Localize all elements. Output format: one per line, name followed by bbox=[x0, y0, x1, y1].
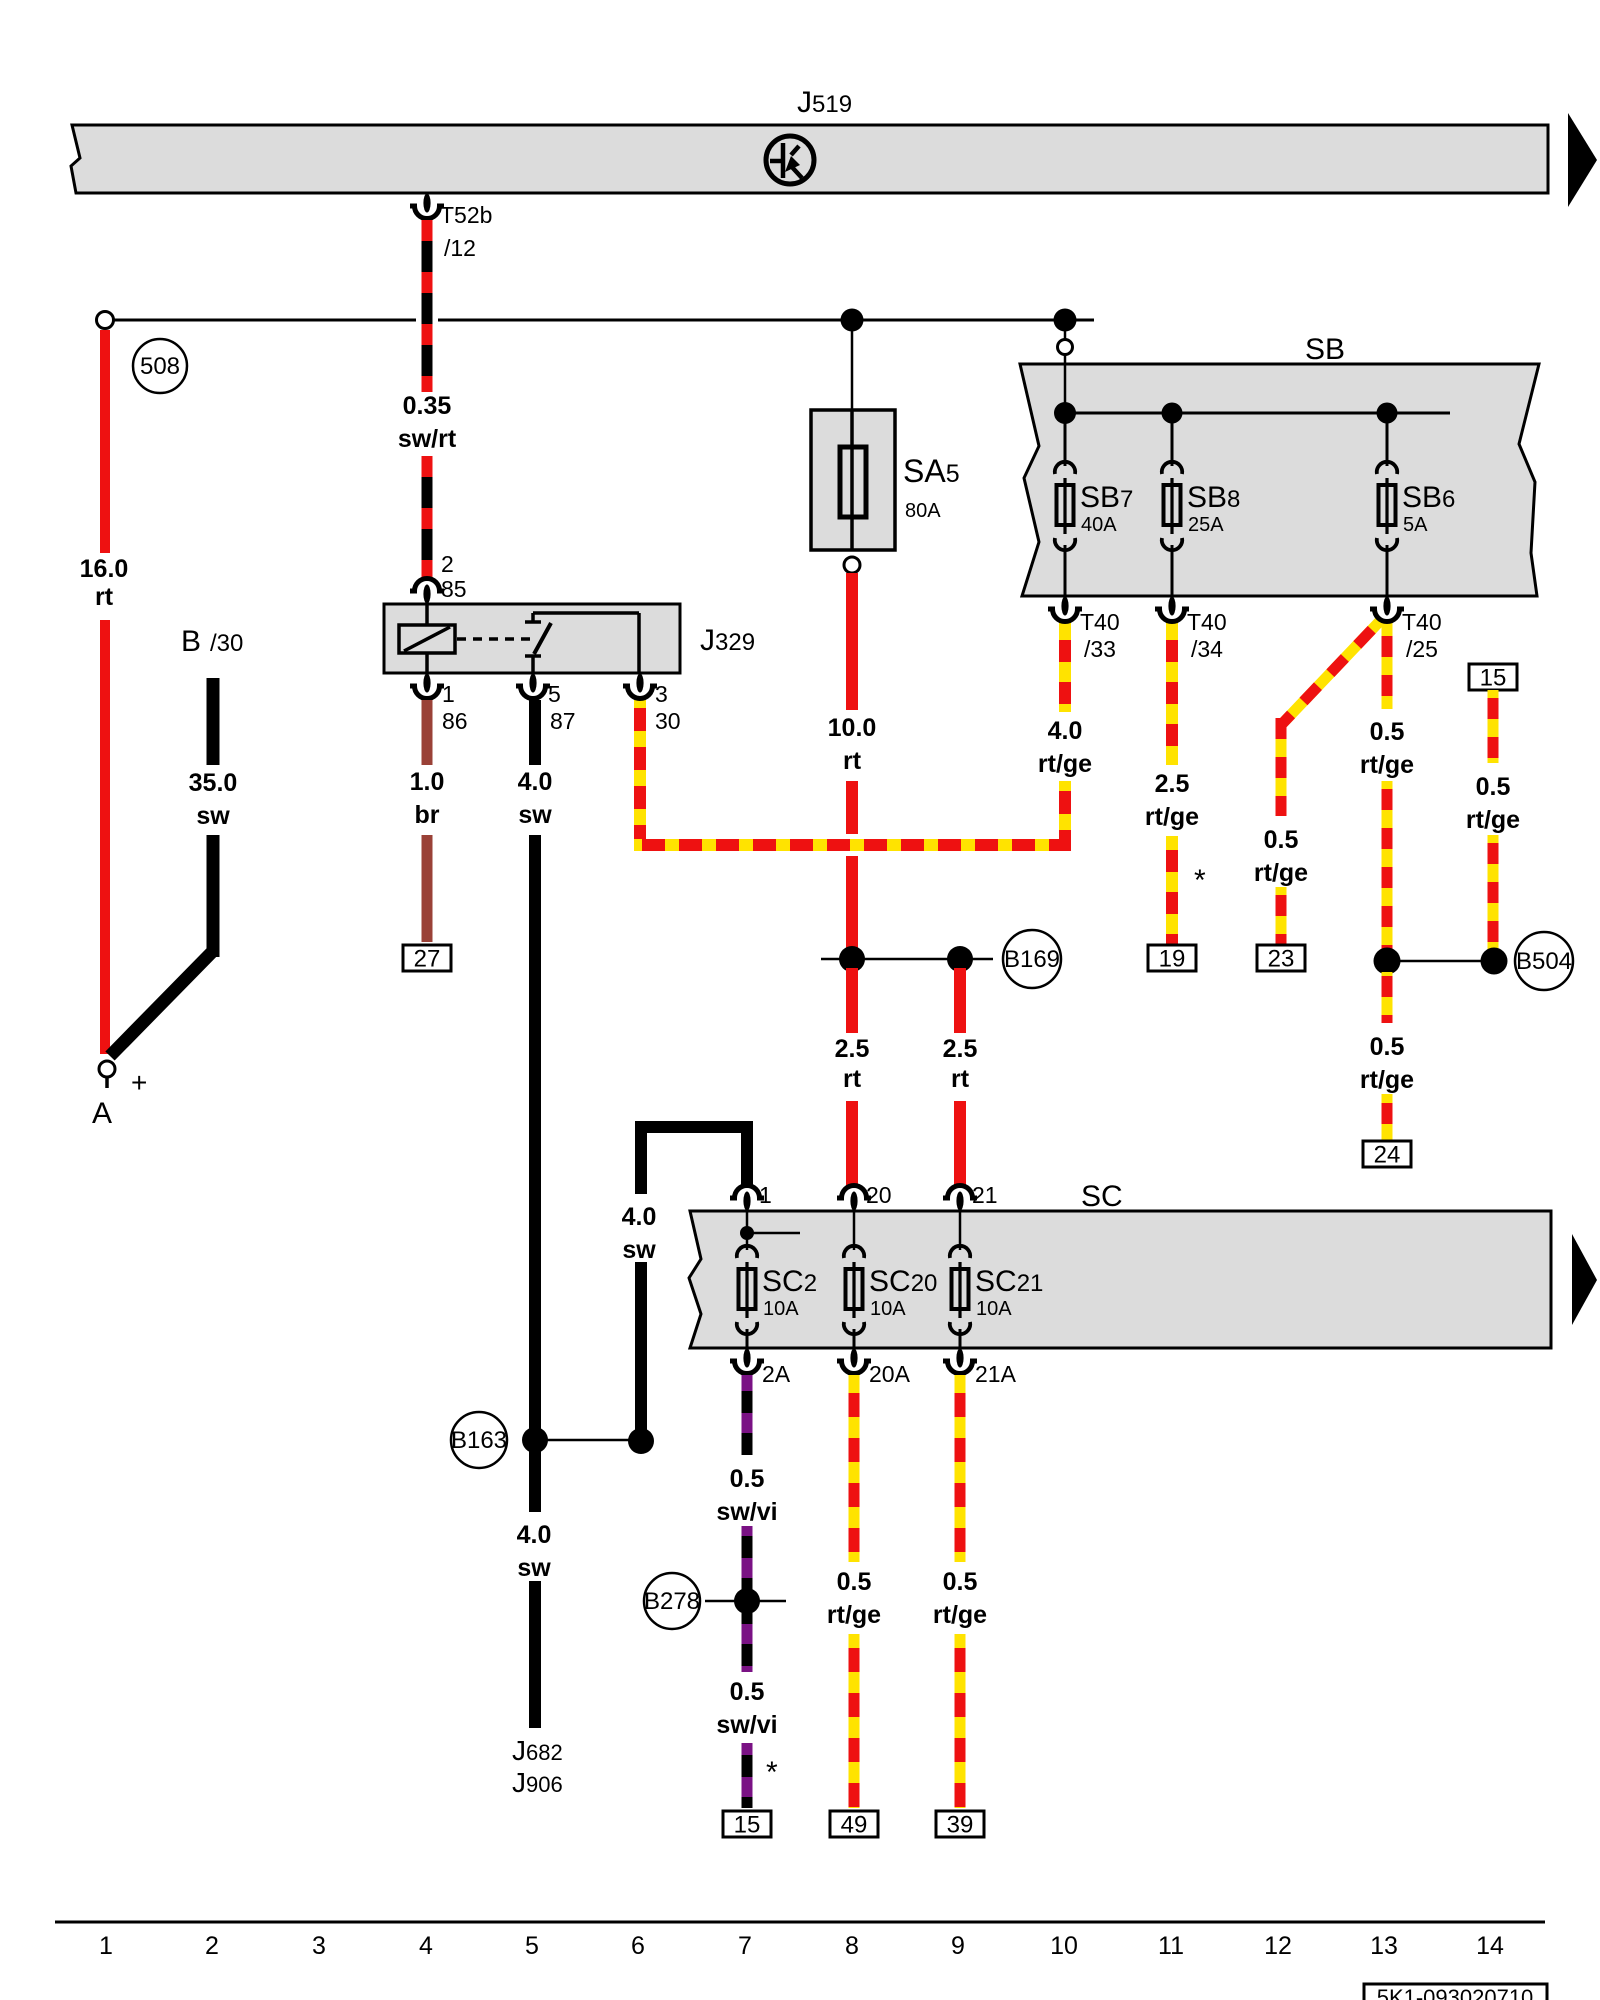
svg-text:rt: rt bbox=[843, 747, 862, 775]
junction dot B504 left bbox=[1374, 948, 1401, 975]
svg-text:4: 4 bbox=[419, 1932, 433, 1960]
connection box 23 bbox=[1257, 945, 1305, 973]
wire 0.5 sw/vi bottom segment bbox=[742, 1743, 753, 1808]
svg-text:SC2: SC2 bbox=[762, 1265, 817, 1298]
svg-text:B278: B278 bbox=[644, 1588, 700, 1615]
svg-text:9: 9 bbox=[951, 1932, 965, 1960]
fuse SA5 80A bbox=[811, 410, 960, 550]
wire 0.5 rt/ge below B504 bbox=[1382, 972, 1393, 1023]
node B169 connection line bbox=[821, 958, 993, 961]
wire 0.5 sw/vi to B278 bbox=[742, 1526, 753, 1594]
svg-text:1: 1 bbox=[759, 1182, 772, 1208]
SA5 output terminal ring bbox=[844, 557, 860, 573]
SC pin 21A connector bbox=[943, 1349, 1017, 1388]
svg-text:1: 1 bbox=[442, 681, 455, 707]
wire 0.5 rt/ge below SC20 upper segment bbox=[849, 1375, 860, 1562]
relay pin 3/30 connector bbox=[623, 674, 681, 735]
wire 4.0 sw segment below pin 87 bbox=[529, 700, 541, 765]
wire 0.5 rt/ge diagonal from T40/25 bbox=[1282, 621, 1380, 724]
battery positive terminal A bbox=[92, 1061, 147, 1130]
wire 35.0 sw lower segment bbox=[207, 835, 220, 957]
svg-text:/33: /33 bbox=[1084, 636, 1116, 662]
svg-text:27: 27 bbox=[414, 946, 441, 973]
svg-text:rt: rt bbox=[843, 1065, 862, 1093]
svg-text:13: 13 bbox=[1370, 1932, 1398, 1960]
ground reference box 27 bbox=[403, 945, 451, 973]
relay J329 box bbox=[384, 604, 755, 673]
svg-text:2.5: 2.5 bbox=[835, 1035, 870, 1063]
svg-text:rt/ge: rt/ge bbox=[1254, 859, 1308, 887]
fuse SB6 5A bbox=[1377, 462, 1456, 550]
wire label 0.5 rt/ge (box 24 branch) bbox=[1360, 1033, 1414, 1094]
svg-text:sw: sw bbox=[518, 801, 552, 829]
svg-text:16.0: 16.0 bbox=[80, 555, 129, 583]
svg-text:10A: 10A bbox=[763, 1298, 799, 1320]
SC pin 20 connector bbox=[837, 1182, 892, 1211]
wire label 0.5 rt/ge (box 23 branch) bbox=[1254, 826, 1308, 887]
wire: plus distribution node y=320 bbox=[114, 319, 1094, 322]
wire 2.5 rt (left) lower segment bbox=[846, 1101, 858, 1186]
junction dot B169 left bbox=[839, 946, 865, 972]
wire label 2.5 rt (right) bbox=[943, 1035, 978, 1093]
svg-text:sw/rt: sw/rt bbox=[398, 425, 457, 453]
svg-text:0.35: 0.35 bbox=[403, 392, 452, 420]
svg-text:/25: /25 bbox=[1406, 636, 1438, 662]
wire 0.35 sw/rt upper segment bbox=[422, 220, 433, 392]
wire 2.5 rt/ge upper segment bbox=[1166, 622, 1178, 765]
relay pin 2/85 connector bbox=[410, 551, 467, 604]
svg-text:+: + bbox=[131, 1067, 147, 1098]
wire 0.5 rt/ge to box 24 bbox=[1382, 1094, 1393, 1140]
svg-text:4.0: 4.0 bbox=[1048, 717, 1083, 745]
svg-text:/34: /34 bbox=[1191, 636, 1223, 662]
svg-text:40A: 40A bbox=[1081, 514, 1117, 536]
svg-text:SC21: SC21 bbox=[975, 1265, 1043, 1298]
SC pin 1 connector bbox=[730, 1182, 772, 1211]
wire label 4.0 sw bbox=[518, 768, 553, 829]
svg-text:rt/ge: rt/ge bbox=[1360, 751, 1414, 779]
svg-text:2A: 2A bbox=[762, 1361, 791, 1387]
svg-text:0.5: 0.5 bbox=[943, 1568, 978, 1596]
node B163 connection line bbox=[535, 1439, 641, 1442]
svg-text:SB6: SB6 bbox=[1402, 481, 1455, 514]
svg-text:10: 10 bbox=[1050, 1932, 1078, 1960]
junction dot B169 right bbox=[947, 946, 973, 972]
svg-text:21A: 21A bbox=[975, 1361, 1017, 1387]
svg-text:23: 23 bbox=[1268, 946, 1295, 973]
connection box 39 bbox=[936, 1811, 984, 1839]
svg-text:SB7: SB7 bbox=[1080, 481, 1133, 514]
svg-text:14: 14 bbox=[1476, 1932, 1504, 1960]
svg-text:5: 5 bbox=[525, 1932, 539, 1960]
SC pin 21 connector bbox=[943, 1182, 998, 1211]
svg-text:A: A bbox=[92, 1097, 112, 1130]
node B504 connection line bbox=[1387, 960, 1495, 963]
node label B504 bbox=[1515, 932, 1573, 990]
wire 4.0 rt/ge horizontal run bbox=[634, 839, 1071, 851]
diagram part number box 5K1-093020710 bbox=[1364, 1984, 1547, 2000]
wire 2.5 rt (right) lower segment bbox=[954, 1101, 966, 1186]
svg-text:J519: J519 bbox=[797, 86, 852, 119]
wire 1.0 br upper segment bbox=[422, 700, 433, 765]
wire 4.0 rt/ge riser to T40/33 lower part bbox=[1059, 781, 1071, 851]
svg-text:T40: T40 bbox=[1402, 609, 1442, 635]
wire 0.5 rt/ge straight below T40/25 bbox=[1382, 622, 1393, 709]
svg-text:SB8: SB8 bbox=[1187, 481, 1240, 514]
relay pin 1/86 connector bbox=[410, 674, 468, 735]
svg-text:80A: 80A bbox=[905, 500, 941, 522]
wire label 4.0 sw (hook) bbox=[622, 1203, 657, 1264]
wire 4.0 sw hook lower segment bbox=[635, 1262, 647, 1441]
svg-text:rt: rt bbox=[951, 1065, 970, 1093]
svg-text:87: 87 bbox=[550, 708, 576, 734]
SB bus junction dots bbox=[1054, 402, 1076, 424]
SB bus risers to fuses bbox=[1065, 413, 1387, 466]
svg-text:39: 39 bbox=[947, 1812, 974, 1839]
current track scale line bbox=[55, 1921, 1545, 1924]
wire 0.5 sw/vi upper segment bbox=[742, 1375, 753, 1455]
svg-text:J682: J682 bbox=[512, 1735, 563, 1766]
junction dot B504 right bbox=[1481, 948, 1508, 975]
wiring junction 508 label bbox=[133, 339, 187, 393]
SC pin 2A connector bbox=[730, 1349, 791, 1388]
junction dot B163 left bbox=[522, 1427, 548, 1453]
svg-text:B: B bbox=[181, 625, 201, 658]
svg-text:0.5: 0.5 bbox=[730, 1465, 765, 1493]
SC pin 20A connector bbox=[837, 1349, 911, 1388]
svg-text:2.5: 2.5 bbox=[1155, 770, 1190, 798]
svg-text:J329: J329 bbox=[700, 624, 755, 657]
svg-text:4.0: 4.0 bbox=[518, 768, 553, 796]
svg-text:5K1-093020710: 5K1-093020710 bbox=[1377, 1985, 1534, 2000]
svg-text:rt/ge: rt/ge bbox=[827, 1601, 881, 1629]
wire 2.5 rt/ge lower segment bbox=[1166, 836, 1178, 944]
node B278 connection line bbox=[705, 1600, 786, 1603]
wire 1.0 br lower segment bbox=[422, 835, 433, 942]
svg-text:10A: 10A bbox=[976, 1298, 1012, 1320]
svg-text:21: 21 bbox=[972, 1182, 998, 1208]
svg-text:J906: J906 bbox=[512, 1767, 563, 1798]
fuse box SB bbox=[1020, 333, 1539, 596]
connection box 24 bbox=[1363, 1141, 1411, 1169]
svg-text:20A: 20A bbox=[869, 1361, 911, 1387]
svg-text:SC20: SC20 bbox=[869, 1265, 937, 1298]
svg-text:49: 49 bbox=[841, 1812, 868, 1839]
svg-text:1: 1 bbox=[99, 1932, 113, 1960]
node label B278 bbox=[644, 1573, 700, 1629]
relay coil bbox=[399, 604, 455, 673]
wire 35.0 sw diagonal to terminal A bbox=[110, 951, 213, 1056]
terminal 15 box (top right) bbox=[1469, 664, 1517, 692]
SB fuse outlets to box bottom bbox=[1065, 545, 1387, 596]
svg-text:508: 508 bbox=[140, 353, 180, 380]
svg-text:85: 85 bbox=[441, 576, 467, 602]
svg-text:5A: 5A bbox=[1403, 514, 1428, 536]
svg-text:2: 2 bbox=[441, 551, 454, 577]
wire 4.0 rt/ge below T40/33 bbox=[1059, 622, 1071, 712]
svg-text:6: 6 bbox=[631, 1932, 645, 1960]
junction dot B163 right bbox=[628, 1428, 654, 1454]
svg-text:B163: B163 bbox=[451, 1427, 507, 1454]
terminal ring at left end bbox=[97, 312, 114, 329]
svg-text:B169: B169 bbox=[1004, 946, 1060, 973]
svg-text:rt/ge: rt/ge bbox=[1360, 1066, 1414, 1094]
control unit J519 bar bbox=[71, 86, 1548, 193]
svg-text:0.5: 0.5 bbox=[837, 1568, 872, 1596]
svg-text:0.5: 0.5 bbox=[1370, 718, 1405, 746]
wire label 2.5 rt (left) bbox=[835, 1035, 870, 1093]
connection box 49 bbox=[830, 1811, 878, 1839]
connector T52b/12 (pin 12) bbox=[410, 194, 492, 262]
wire 0.35 sw/rt lower segment bbox=[422, 456, 433, 577]
svg-text:sw: sw bbox=[622, 1236, 656, 1264]
svg-text:2: 2 bbox=[205, 1932, 219, 1960]
relay switch contact bbox=[525, 613, 551, 673]
wire label 0.5 rt/ge (SC21) bbox=[933, 1568, 987, 1629]
svg-text:11: 11 bbox=[1158, 1932, 1184, 1960]
svg-text:/12: /12 bbox=[444, 235, 476, 261]
fuse SB7 40A bbox=[1055, 462, 1134, 550]
fuse SC2 10A bbox=[737, 1246, 817, 1334]
wire 0.5 sw/vi below B278 bbox=[742, 1610, 753, 1672]
svg-text:19: 19 bbox=[1159, 946, 1186, 973]
wire label 0.35 sw/rt bbox=[398, 392, 457, 453]
svg-text:2.5: 2.5 bbox=[943, 1035, 978, 1063]
wire label 10.0 rt bbox=[828, 714, 877, 775]
wire label 0.5 sw/vi (lower) bbox=[716, 1678, 777, 1739]
svg-text:rt/ge: rt/ge bbox=[933, 1601, 987, 1629]
svg-text:SC: SC bbox=[1081, 1180, 1123, 1213]
svg-text:30: 30 bbox=[655, 708, 681, 734]
svg-text:rt/ge: rt/ge bbox=[1145, 803, 1199, 831]
fuse box SC bbox=[689, 1180, 1551, 1348]
terminal 15 box (bottom) bbox=[723, 1811, 771, 1839]
wire 10.0 rt lower segment bbox=[846, 856, 858, 950]
svg-text:/30: /30 bbox=[210, 630, 243, 657]
wire 4.0 sw long segment to B163 bbox=[529, 835, 541, 1446]
current track numbers 1-14 bbox=[99, 1932, 1504, 1960]
svg-text:5: 5 bbox=[548, 681, 561, 707]
wire label 35.0 sw bbox=[189, 769, 238, 830]
svg-text:12: 12 bbox=[1264, 1932, 1292, 1960]
wire 4.0 sw bottom segment bbox=[529, 1581, 541, 1728]
svg-text:0.5: 0.5 bbox=[730, 1678, 765, 1706]
wire 4.0 rt/ge from relay pin 30 vertical bbox=[634, 700, 646, 851]
svg-text:br: br bbox=[415, 801, 440, 829]
fuse SB8 25A bbox=[1162, 462, 1241, 550]
SB feed stub with ring bbox=[1058, 331, 1073, 413]
J519 bar continuation arrow bbox=[1568, 113, 1597, 207]
svg-text:rt/ge: rt/ge bbox=[1466, 806, 1520, 834]
terminal B /30 label bbox=[181, 625, 243, 658]
svg-text:0.5: 0.5 bbox=[1264, 826, 1299, 854]
wire 10.0 rt upper segment bbox=[846, 573, 858, 710]
svg-text:3: 3 bbox=[655, 681, 668, 707]
wire label 0.5 sw/vi (upper) bbox=[716, 1465, 777, 1526]
wire label 0.5 rt/ge (SC20) bbox=[827, 1568, 881, 1629]
wire 16.0 rt upper segment bbox=[100, 330, 110, 553]
SC2 internal branch stub bbox=[740, 1208, 800, 1250]
svg-text:T52b: T52b bbox=[440, 202, 492, 228]
svg-text:24: 24 bbox=[1374, 1142, 1401, 1169]
relay internal wire to pin 3 bbox=[533, 613, 639, 673]
wire 10.0 rt mid segment bbox=[846, 781, 858, 834]
wire label 0.5 rt/ge (box 15 branch) bbox=[1466, 773, 1520, 834]
wire label 16.0 rt bbox=[80, 555, 129, 611]
wire 0.5 rt/ge below SC21 upper segment bbox=[955, 1375, 966, 1562]
svg-text:4.0: 4.0 bbox=[622, 1203, 657, 1231]
wire label 4.0 rt/ge bbox=[1038, 717, 1092, 778]
junction dot B278 bbox=[734, 1588, 760, 1614]
svg-text:35.0: 35.0 bbox=[189, 769, 238, 797]
wire 2.5 rt (left) upper segment bbox=[846, 968, 858, 1033]
relay pin 5/87 connector bbox=[516, 674, 576, 735]
node label B163 bbox=[451, 1412, 507, 1468]
wire 35.0 sw upper segment bbox=[207, 678, 220, 765]
wire 0.5 rt/ge from box 15 upper segment bbox=[1488, 690, 1499, 763]
wire 4.0 sw segment below B163 bbox=[529, 1446, 541, 1512]
svg-text:25A: 25A bbox=[1188, 514, 1224, 536]
svg-text:7: 7 bbox=[738, 1932, 752, 1960]
svg-text:4.0: 4.0 bbox=[517, 1521, 552, 1549]
feed wire to fuse SA5 bbox=[851, 331, 854, 410]
junction dot at SA5 feed bbox=[841, 309, 864, 332]
wire 0.5 rt/ge lower segment to box 23 bbox=[1276, 887, 1287, 944]
wire label 0.5 rt/ge (T40/25 branch) bbox=[1360, 718, 1414, 779]
svg-text:1.0: 1.0 bbox=[410, 768, 445, 796]
svg-text:*: * bbox=[1194, 864, 1206, 897]
svg-text:*: * bbox=[766, 1756, 778, 1789]
wire 0.5 rt/ge down to node B504 bbox=[1382, 781, 1393, 950]
svg-text:T40: T40 bbox=[1080, 609, 1120, 635]
svg-text:0.5: 0.5 bbox=[1476, 773, 1511, 801]
svg-text:15: 15 bbox=[1480, 665, 1507, 692]
svg-text:sw: sw bbox=[196, 802, 230, 830]
wire label 2.5 rt/ge bbox=[1145, 770, 1199, 831]
target labels J682 J906 bbox=[512, 1735, 563, 1798]
svg-text:sw/vi: sw/vi bbox=[716, 1711, 777, 1739]
connector T40/25 bbox=[1370, 597, 1442, 663]
svg-text:10.0: 10.0 bbox=[828, 714, 877, 742]
wire label 4.0 sw (lower) bbox=[517, 1521, 552, 1582]
svg-text:0.5: 0.5 bbox=[1370, 1033, 1405, 1061]
node label B169 bbox=[1003, 930, 1061, 988]
svg-text:T40: T40 bbox=[1187, 609, 1227, 635]
svg-text:3: 3 bbox=[312, 1932, 326, 1960]
wire 0.5 rt/ge vertical above label (to box 23) bbox=[1276, 718, 1287, 816]
connector T40/33 bbox=[1048, 597, 1120, 663]
svg-text:rt: rt bbox=[95, 583, 114, 611]
svg-text:20: 20 bbox=[866, 1182, 892, 1208]
SB internal bus bbox=[1065, 412, 1450, 415]
svg-text:15: 15 bbox=[734, 1812, 761, 1839]
svg-text:86: 86 bbox=[442, 708, 468, 734]
SC fuse outlets bbox=[747, 1329, 960, 1348]
connector T40/34 bbox=[1155, 597, 1227, 663]
wire 0.5 rt/ge below SC20 lower segment bbox=[849, 1634, 860, 1808]
wire 2.5 rt (right) upper segment bbox=[954, 968, 966, 1033]
svg-text:8: 8 bbox=[845, 1932, 859, 1960]
svg-text:sw/vi: sw/vi bbox=[716, 1498, 777, 1526]
relay control dashed link bbox=[457, 637, 531, 641]
svg-text:rt/ge: rt/ge bbox=[1038, 750, 1092, 778]
svg-text:sw: sw bbox=[517, 1554, 551, 1582]
J519 internal connection symbol (circle with arrow) bbox=[766, 136, 814, 184]
fuse SC20 10A bbox=[844, 1246, 938, 1334]
fuse SC21 10A bbox=[950, 1246, 1044, 1334]
connection box 19 bbox=[1148, 945, 1196, 973]
wire 4.0 sw hook above SC pin 1 bbox=[641, 1127, 747, 1194]
wire label 1.0 br bbox=[410, 768, 445, 829]
svg-text:B504: B504 bbox=[1516, 948, 1572, 975]
wire 0.5 rt/ge from box 15 lower segment bbox=[1488, 835, 1499, 952]
SC21 internal riser bbox=[959, 1208, 962, 1250]
wire 16.0 rt lower segment bbox=[100, 620, 110, 1054]
wire 0.5 rt/ge below SC21 lower segment bbox=[955, 1634, 966, 1808]
junction dot at SB feed bbox=[1054, 309, 1077, 332]
svg-text:10A: 10A bbox=[870, 1298, 906, 1320]
SC20 internal riser bbox=[853, 1208, 856, 1250]
SC bar continuation arrow bbox=[1572, 1234, 1597, 1325]
svg-text:SB: SB bbox=[1305, 333, 1345, 366]
